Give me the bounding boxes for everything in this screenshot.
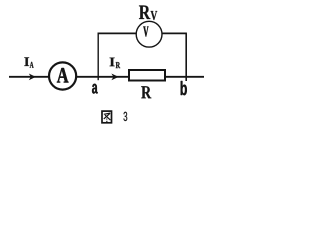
label R_V (voltmeter resistance): [139, 6, 157, 21]
resistor R value label: [141, 86, 151, 98]
wire voltmeter branch left vertical (node a up): [97, 33, 99, 80]
caption figure number 3: [124, 112, 128, 121]
current arrow I_A on main wire: [29, 74, 36, 81]
wire voltmeter branch right vertical (down to node b): [185, 33, 187, 81]
node b label: [181, 81, 187, 95]
voltmeter letter V: [143, 27, 148, 37]
wire voltmeter branch top horizontal: [98, 32, 187, 34]
node a label: [92, 84, 98, 94]
current arrow I_R on main wire: [111, 74, 118, 81]
caption character 图 (drawn): [102, 111, 112, 123]
label I_R: [110, 58, 121, 69]
voltmeter V circle: [136, 21, 162, 47]
resistor R body: [129, 70, 165, 81]
ammeter U1 circle: [49, 62, 76, 89]
wire main horizontal a-b rail: [9, 76, 204, 78]
label I_A: [24, 57, 33, 67]
ammeter U1 letter A: [57, 68, 69, 83]
